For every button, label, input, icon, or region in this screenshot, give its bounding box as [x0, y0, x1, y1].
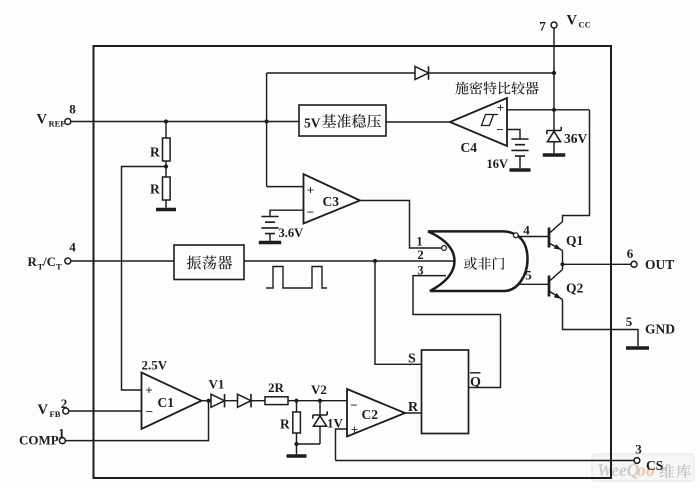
svg-text:C3: C3: [323, 194, 340, 209]
svg-text:Q1: Q1: [566, 233, 584, 248]
svg-text:+: +: [145, 383, 152, 398]
wire NOR output 4 to Q1 base: [518, 236, 548, 238]
pin 8 terminal (VREF): [65, 119, 71, 125]
wire osc to latch S input: [375, 261, 422, 364]
svg-text:−: −: [496, 122, 503, 137]
svg-text:R: R: [280, 417, 290, 432]
svg-text:1: 1: [416, 235, 422, 249]
diode V1: [211, 394, 225, 407]
resistor R lower divider: [163, 177, 171, 200]
wire 1V zener to gnd node: [319, 426, 321, 444]
wire R lower to ground: [165, 200, 167, 208]
wire C4 - input to 16V battery: [507, 130, 520, 140]
svg-text:REF: REF: [49, 119, 66, 129]
wire zener bottom to gnd node: [297, 443, 321, 445]
junction gnd node: [294, 442, 298, 446]
wire Q1 collector to VCC rail: [563, 110, 590, 222]
pin 2 terminal (VFB): [63, 408, 69, 414]
wire C4 output to 5V regulator: [386, 121, 450, 123]
svg-text:GND: GND: [645, 322, 675, 337]
resistor R upper divider: [163, 138, 171, 161]
wire divider tap to C1 + input: [122, 167, 167, 391]
pin 4 terminal (RT/CT): [65, 258, 71, 264]
wire VREF pin8 to 5V regulator: [71, 121, 299, 123]
wire V2 to R: [296, 401, 298, 412]
block SR latch: [422, 350, 469, 434]
label 振荡器: [187, 256, 201, 270]
svg-text:V: V: [38, 402, 49, 418]
wire Q1 emitter to OUT node: [562, 251, 564, 265]
junction C4+/VCC rail: [552, 108, 556, 112]
wire vertical VREF/C3+ feed: [266, 73, 268, 187]
NOR gate 或非门: [428, 231, 528, 291]
wire diode cathode to VCC rail: [429, 72, 555, 74]
wire pin4 to oscillator: [71, 260, 174, 262]
diode (second in series): [238, 394, 252, 407]
ground under divider: [156, 208, 176, 211]
wire V2 to 1V zener: [319, 401, 321, 415]
pin 1 terminal (COMP): [59, 438, 65, 444]
svg-text:R: R: [28, 254, 38, 269]
wire Q2 collector to OUT node: [562, 264, 564, 269]
svg-text:CS: CS: [646, 458, 663, 473]
svg-text:CC: CC: [579, 20, 591, 30]
wire C4 + input to VCC rail: [507, 109, 590, 111]
svg-text:R: R: [150, 145, 160, 160]
svg-text:5: 5: [525, 268, 532, 283]
wire V1 to second diode: [225, 400, 238, 402]
op-amp U-C2 current-sense comparator: [347, 389, 405, 437]
junction divider tap: [164, 164, 168, 168]
battery 16V: [511, 139, 528, 156]
svg-text:2R: 2R: [268, 380, 285, 395]
NOR output bubble: [513, 233, 518, 238]
transistor Q1: [548, 228, 551, 248]
junction VCC/diode: [552, 71, 556, 75]
svg-text:2: 2: [417, 248, 423, 262]
wire Q2 emitter to GND pin: [563, 300, 639, 347]
svg-text:V: V: [567, 13, 578, 29]
wire between divider resistors: [165, 161, 167, 177]
hysteresis symbol: [481, 115, 498, 126]
wire VREF to R upper: [165, 122, 167, 139]
op-amp U-C4 Schmitt comparator: [450, 98, 507, 146]
wire 2R to C2 - input (node V2): [288, 400, 347, 402]
svg-text:−: −: [307, 205, 314, 220]
watermark 维: [660, 464, 674, 478]
wire diode to 2R: [251, 400, 265, 402]
zener diode 36V: [547, 127, 561, 134]
svg-text:16V: 16V: [487, 157, 509, 171]
svg-text:2.5V: 2.5V: [142, 358, 168, 373]
svg-text:V1: V1: [209, 377, 225, 392]
NOR input 1 bubble: [442, 246, 447, 251]
svg-text:2: 2: [61, 396, 68, 411]
svg-text:FB: FB: [50, 409, 61, 419]
clock waveform symbol: [266, 267, 327, 289]
zener diode 1V: [313, 411, 327, 418]
label 施密特比较器: [455, 82, 468, 95]
svg-text:S: S: [408, 352, 416, 367]
wire C3 - input to 3.6V battery: [270, 210, 304, 216]
IC boundary box: [94, 46, 612, 478]
svg-text:Q2: Q2: [566, 281, 584, 296]
junction osc output / latch S: [373, 259, 377, 263]
svg-text:−: −: [350, 398, 357, 413]
svg-text:3: 3: [635, 442, 642, 457]
junction VREF/C3 feed: [265, 119, 269, 123]
wire COMP pin1 to C1 output: [65, 401, 208, 441]
junction C1 output/COMP: [206, 399, 210, 403]
svg-text:COMP: COMP: [19, 433, 59, 448]
block 5V reference regulator: [299, 105, 386, 136]
svg-text:+: +: [497, 100, 504, 115]
svg-text:6: 6: [627, 246, 634, 261]
resistor R (V2 divider): [293, 412, 301, 433]
ground at GND pin: [626, 346, 649, 349]
pin 6 terminal (OUT): [631, 261, 637, 267]
wire VCC rail down to 36V zener: [553, 28, 555, 131]
battery 3.6V: [261, 217, 278, 234]
svg-text:V: V: [37, 112, 48, 128]
wire C3 output to NOR input 1: [360, 201, 441, 249]
wire C1 output to V1: [202, 400, 212, 402]
svg-text:+: +: [351, 422, 358, 437]
resistor 2R: [265, 397, 288, 405]
svg-text:Q: Q: [470, 375, 481, 390]
svg-text:V2: V2: [311, 382, 327, 397]
junction node V2 at zener: [318, 399, 322, 403]
svg-text:1V: 1V: [327, 416, 344, 431]
transistor Q2: [548, 276, 551, 297]
svg-text:3.6V: 3.6V: [279, 226, 304, 240]
wire C3 + input: [267, 186, 304, 188]
svg-text:T: T: [56, 262, 62, 272]
wire NOR input 3: [413, 275, 447, 277]
watermark card: [592, 454, 694, 481]
svg-text:R: R: [150, 182, 160, 197]
wire R to gnd node: [296, 433, 298, 444]
svg-text:4: 4: [69, 240, 76, 255]
wire oscillator output to NOR input 2: [244, 260, 454, 262]
wire 3.6V battery to ground: [269, 234, 271, 241]
svg-text:−: −: [146, 404, 153, 419]
wire gnd node to ground: [296, 444, 298, 454]
wire pin2 to C1 inverting input: [69, 410, 142, 412]
wire NOR output 5 to Q2 base: [517, 283, 548, 285]
block oscillator 振荡器: [174, 245, 244, 280]
pin 7 terminal (VCC): [551, 22, 557, 28]
op-amp U-C1 error amplifier: [142, 373, 202, 430]
op-amp U-C3 comparator: [304, 174, 361, 224]
wire C2 output to latch R: [405, 412, 422, 414]
pin 3 terminal (CS): [634, 458, 640, 464]
svg-text:C2: C2: [362, 407, 379, 422]
wire 36V zener to ground: [553, 143, 555, 154]
wire corner to diode anode: [267, 72, 415, 74]
wire latch Q-bar to NOR input 3: [413, 276, 501, 388]
ground under R/1V zener: [287, 454, 307, 457]
svg-text:7: 7: [539, 19, 546, 34]
svg-text:+: +: [307, 183, 314, 198]
svg-text:4: 4: [523, 223, 530, 238]
ground under 16V battery: [510, 168, 531, 171]
diode D1 (VREF to VCC): [415, 66, 429, 79]
svg-text:5V: 5V: [304, 116, 321, 131]
svg-text:1: 1: [58, 426, 65, 441]
wire OUT node to pin 6: [563, 263, 631, 265]
wire CS line: [336, 460, 634, 462]
svg-text:OUT: OUT: [645, 257, 674, 272]
wire C2 + input down to CS line: [336, 429, 348, 461]
junction OUT node: [560, 262, 564, 266]
ground under 36V zener: [543, 153, 565, 156]
svg-text:8: 8: [69, 102, 76, 117]
svg-text:C1: C1: [158, 395, 175, 410]
watermark 库: [676, 464, 691, 478]
ground under 3.6V battery: [259, 241, 281, 244]
svg-text:C4: C4: [461, 140, 478, 155]
junction node V2 at R top: [294, 399, 298, 403]
junction VREF/divider: [164, 119, 168, 123]
svg-text:5: 5: [626, 314, 633, 329]
svg-text:36V: 36V: [564, 131, 588, 146]
svg-text:/C: /C: [42, 254, 56, 269]
wire 16V battery to ground: [519, 156, 521, 168]
